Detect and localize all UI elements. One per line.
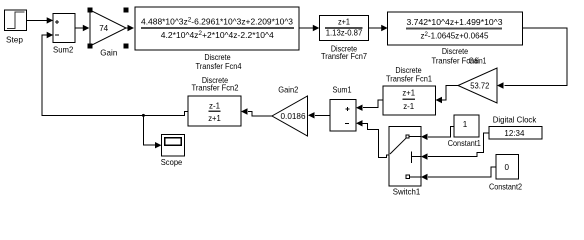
svg-text:12:34: 12:34 (504, 128, 524, 138)
transfer function block Discrete Transfer Fcn6 (388, 12, 523, 66)
wire Sum2 to Gain (75, 25, 89, 31)
selection handle bottom-left of Gain (88, 44, 93, 49)
branch wire junction to Scope (143, 115, 161, 148)
wire Fcn1 to Sum1 plus input (356, 100, 383, 111)
step source block Step (5, 10, 27, 45)
selection handle bottom-right of Gain (124, 44, 129, 49)
sum block Sum2 (53, 13, 75, 54)
wire Gain to Discrete Transfer Fcn4 (126, 25, 134, 31)
sum block Sum1 (flipped) (330, 84, 356, 131)
svg-text:Gain2: Gain2 (278, 85, 298, 95)
selection handle top-left of Gain (88, 8, 93, 13)
constant block Constant2 value 0 (489, 155, 522, 192)
transfer function block Discrete Transfer Fcn1 (flipped) (383, 65, 436, 115)
wire Constant1 to Switch1 input 1 (421, 126, 454, 140)
wire Fcn6 to Gain1 (right, down, left) (497, 28, 567, 89)
svg-text:Discrete: Discrete (442, 46, 469, 56)
svg-text:1: 1 (463, 119, 468, 129)
svg-text:74: 74 (99, 23, 108, 33)
switch block Switch1 (flipped) (389, 127, 421, 197)
svg-text:0.0186: 0.0186 (281, 111, 306, 121)
svg-text:Sum1: Sum1 (333, 84, 352, 94)
svg-text:Gain: Gain (100, 47, 117, 57)
digital clock block Digital Clock (489, 115, 542, 140)
feedback wire Fcn2 to Sum2 minus input (42, 32, 188, 116)
svg-text:Transfer Fcn7: Transfer Fcn7 (321, 51, 367, 61)
transfer function block Discrete Transfer Fcn2 (flipped) (188, 75, 241, 126)
gain block Gain value 74 (selected, corner handles) (90, 10, 126, 57)
svg-text:z+1: z+1 (208, 113, 221, 123)
svg-text:Transfer Fcn2: Transfer Fcn2 (192, 83, 239, 93)
svg-text:Transfer Fcn4: Transfer Fcn4 (196, 61, 242, 71)
transfer function block Discrete Transfer Fcn7 (319, 15, 368, 61)
svg-text:53.72: 53.72 (470, 80, 489, 90)
wire Digital Clock to Switch1 input 2 (421, 133, 489, 160)
junction node on feedback wire (142, 114, 145, 117)
svg-text:Constant1: Constant1 (448, 138, 481, 148)
wire Fcn7 to Discrete Transfer Fcn6 (369, 25, 388, 31)
svg-text:1.13z-0.87: 1.13z-0.87 (326, 28, 363, 38)
gain block Gain2 value 0.0186 (flipped left) (272, 85, 308, 136)
selection handle top-right of Gain (124, 8, 129, 13)
wire Sum1 to Gain2 (308, 112, 330, 118)
wire Step to Sum2 plus input (27, 17, 54, 23)
svg-text:z+1: z+1 (402, 88, 415, 98)
svg-text:Switch1: Switch1 (393, 187, 421, 197)
svg-text:Step: Step (6, 35, 23, 45)
svg-text:Sum2: Sum2 (53, 45, 74, 55)
svg-text:z+1: z+1 (338, 17, 350, 27)
svg-text:z-1: z-1 (403, 101, 414, 111)
svg-text:0: 0 (505, 162, 510, 172)
svg-text:Transfer Fcn1: Transfer Fcn1 (386, 74, 432, 84)
svg-text:z-1: z-1 (209, 100, 220, 110)
svg-text:z2-1.0645z+0.0645: z2-1.0645z+0.0645 (421, 31, 489, 41)
svg-text:4.2*10^4z2+2*10^4z-2.2*10^4: 4.2*10^4z2+2*10^4z-2.2*10^4 (161, 30, 274, 40)
wire Constant2 to Switch1 input 3 (421, 167, 496, 180)
scope block Scope (161, 135, 185, 168)
svg-text:Digital Clock: Digital Clock (493, 115, 537, 125)
svg-text:4.488*10^3z2-6.2961*10^3z+2.20: 4.488*10^3z2-6.2961*10^3z+2.209*10^3 (141, 16, 293, 26)
constant block Constant1 value 1 (448, 115, 481, 148)
svg-text:Gain1: Gain1 (469, 56, 487, 66)
transfer function block Discrete Transfer Fcn4 (135, 7, 299, 71)
svg-text:3.742*10^4z+1.499*10^3: 3.742*10^4z+1.499*10^3 (407, 17, 503, 27)
svg-text:Constant2: Constant2 (489, 182, 522, 192)
wire Switch1 to Sum1 minus input (356, 120, 389, 157)
wire Fcn4 to Discrete Transfer Fcn7 (299, 25, 319, 31)
wire Gain1 to Discrete Transfer Fcn1 (436, 86, 459, 104)
svg-text:Scope: Scope (161, 157, 183, 167)
wire Gain2 to Discrete Transfer Fcn2 (241, 108, 272, 116)
gain block Gain1 value 53.72 (flipped left) (458, 68, 497, 103)
